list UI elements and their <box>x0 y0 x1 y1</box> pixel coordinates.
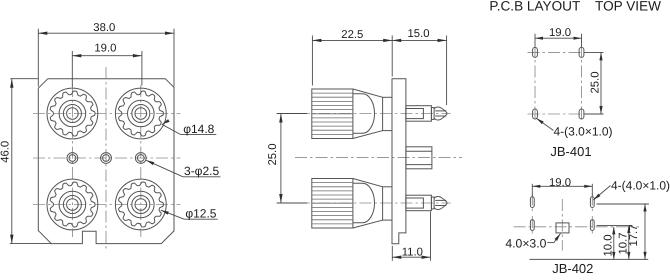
dimension 25.0 extension lines <box>277 114 307 204</box>
dimension 38.0 line with arrows <box>38 32 174 35</box>
side view: bottom post centerline <box>298 202 451 204</box>
svg-text:11.0: 11.0 <box>402 247 423 259</box>
svg-text:4-(4.0×1.0): 4-(4.0×1.0) <box>611 179 670 193</box>
svg-text:JB-401: JB-401 <box>550 144 591 159</box>
JB-402: PCB edge baseline <box>530 258 649 260</box>
svg-text:25.0: 25.0 <box>589 72 601 94</box>
dimension text 25.0 (rotated) <box>267 144 279 166</box>
front view: right small mounting hole (3-&#966;2.5) <box>135 153 146 164</box>
JB-401: dimension 19.0 extension lines <box>535 34 582 47</box>
svg-text:P.C.B LAYOUT: P.C.B LAYOUT <box>489 0 580 14</box>
JB-402: horizontal centerline <box>514 226 639 228</box>
JB-402: dimension text 10.7 (rotated) <box>618 233 630 255</box>
front view: center small mounting hole (3-&#966;2.5) <box>101 153 112 164</box>
JB-402: dimension 19.0 line with arrows <box>532 185 592 188</box>
svg-text:22.5: 22.5 <box>341 29 363 41</box>
side view: middle centerline <box>295 157 462 159</box>
side view: top post centerline <box>298 113 451 115</box>
JB-401: title text <box>550 144 591 159</box>
front view: top-right binding post knob <box>115 88 166 139</box>
front view: horizontal centerline through top knobs <box>33 113 181 115</box>
svg-text:4-(3.0×1.0): 4-(3.0×1.0) <box>554 125 613 139</box>
JB-402: slot centerlines second row <box>532 216 592 235</box>
dimension text 15.0 <box>408 28 430 40</box>
JB-401: top-left slot <box>533 47 538 57</box>
JB-402: vertical centerline <box>561 199 563 251</box>
JB-401: dimension 25.0 line with arrows <box>599 52 602 114</box>
svg-text:17.7: 17.7 <box>628 225 640 247</box>
dimension 46.0 line with arrows <box>10 79 13 244</box>
dimension 38.0 extension lines <box>38 29 174 87</box>
svg-text:19.0: 19.0 <box>94 43 116 55</box>
svg-text:19.0: 19.0 <box>549 27 571 39</box>
label text &#966;14.8 <box>183 122 214 136</box>
JB-401: label text 4-(3.0&#215;1.0) <box>554 125 613 139</box>
dimension 22.5 line with arrows <box>312 39 392 42</box>
JB-401: bottom-left slot <box>533 109 538 119</box>
dimension 46.0 extension lines <box>10 79 52 244</box>
JB-402: dimension 17.7 line with arrows <box>643 204 646 259</box>
svg-text:10.0: 10.0 <box>603 235 615 257</box>
side view: middle mounting boss behind panel <box>406 147 432 169</box>
dimension text 19.0 <box>94 43 116 55</box>
JB-402: dimension 19.0 extension lines <box>532 184 592 196</box>
side view: top binding post <box>312 89 447 139</box>
svg-text:38.0: 38.0 <box>93 22 115 34</box>
svg-text:φ12.5: φ12.5 <box>185 206 216 220</box>
svg-text:46.0: 46.0 <box>0 141 11 163</box>
front view: bottom-right binding post knob <box>115 179 166 230</box>
JB-402: top-right slot <box>590 197 594 208</box>
JB-401: dimension text 25.0 (rotated) <box>589 72 601 94</box>
front view: vertical centerline middle <box>105 67 107 251</box>
dimension 19.0 extension lines <box>72 51 142 87</box>
JB-402: pad size leader 4.0&#215;3.0 <box>547 234 560 243</box>
JB-402: central pad rectangle 4.0&#215;3.0 <box>556 223 569 233</box>
svg-text:4.0×3.0: 4.0×3.0 <box>505 236 546 250</box>
JB-402: top-left slot <box>530 197 534 208</box>
svg-text:3-φ2.5: 3-φ2.5 <box>184 164 219 178</box>
label &#966;12.5 leader with arrow and underline <box>161 210 218 219</box>
label 3-&#966;2.5 leader with arrow and underline <box>146 160 220 177</box>
JB-402: middle-left slot <box>530 220 534 231</box>
JB-402: dimension text 17.7 (rotated) <box>628 225 640 247</box>
JB-401: bottom-right slot <box>579 109 584 119</box>
label text 3-&#966;2.5 <box>184 164 219 178</box>
side view: mounting panel flange <box>392 79 406 244</box>
dimension text 11.0 <box>402 247 423 259</box>
JB-402: middle-right slot <box>590 220 594 231</box>
JB-401: vertical centerlines <box>535 45 582 121</box>
svg-text:TOP VIEW: TOP VIEW <box>595 0 661 14</box>
dimension text 22.5 <box>341 29 363 41</box>
dimension 11.0 extension lines <box>392 212 430 261</box>
JB-402: dimension 10.0 line with arrows <box>612 227 615 260</box>
front view: horizontal centerline through bottom knobs <box>33 204 181 206</box>
dimension 19.0 line with arrows <box>72 54 142 57</box>
dimension text 46.0 (rotated) <box>0 141 11 163</box>
side view: bottom binding post <box>312 179 447 229</box>
JB-402: title text <box>552 261 593 276</box>
JB-402: extension line from top slots <box>597 203 649 205</box>
header text P.C.B LAYOUT / TOP VIEW <box>489 0 661 14</box>
label text &#966;12.5 <box>185 206 216 220</box>
JB-402: dimension 10.7 line with arrows <box>627 226 630 260</box>
svg-text:15.0: 15.0 <box>408 28 430 40</box>
front view: left small mounting hole (3-&#966;2.5) <box>67 153 78 164</box>
dimension 15.0 extension line right <box>446 36 448 106</box>
JB-402: extension line for 10.7 <box>597 225 633 227</box>
svg-text:25.0: 25.0 <box>267 144 279 166</box>
front view: bottom-left binding post knob <box>47 179 98 230</box>
front view: vertical centerline right column <box>140 85 142 237</box>
JB-402: label text 4-(4.0&#215;1.0) <box>611 179 670 193</box>
JB-402: slot centerlines top <box>532 194 592 212</box>
JB-401: dimension 25.0 extension lines <box>585 52 604 114</box>
dimension 15.0 line with arrows <box>392 39 446 42</box>
label &#966;14.8 leader with arrow and underline <box>162 119 217 135</box>
front view: face plate outline with chamfered corners and bottom notch <box>38 79 174 244</box>
JB-402: label text 4.0&#215;3.0 <box>505 236 546 250</box>
JB-402: slot size leader 4-(4.0&#215;1.0) <box>593 186 610 201</box>
JB-401: slot size leader 4-(3.0&#215;1.0) <box>536 118 553 130</box>
front view: vertical centerline left column <box>71 85 73 237</box>
dimension 11.0 line with arrows <box>392 256 430 259</box>
dimension 25.0 line with arrows <box>279 114 282 204</box>
svg-text:φ14.8: φ14.8 <box>183 122 214 136</box>
dimension text 38.0 <box>93 22 115 34</box>
JB-402: dimension text 19.0 <box>549 177 571 189</box>
svg-text:19.0: 19.0 <box>549 177 571 189</box>
JB-401: dimension 19.0 line with arrows <box>535 37 582 40</box>
svg-text:JB-402: JB-402 <box>552 261 593 276</box>
dimension extension line at panel face <box>391 36 393 77</box>
front view: horizontal centerline through middle holes <box>33 157 181 159</box>
JB-402: dimension text 10.0 (rotated) <box>603 235 615 257</box>
JB-401: dimension text 19.0 <box>549 27 571 39</box>
JB-401: top-right slot <box>579 47 584 57</box>
dimension 22.5 extension line left <box>311 36 313 86</box>
JB-401: horizontal centerlines <box>528 52 590 114</box>
front view: top-left binding post knob <box>47 88 98 139</box>
